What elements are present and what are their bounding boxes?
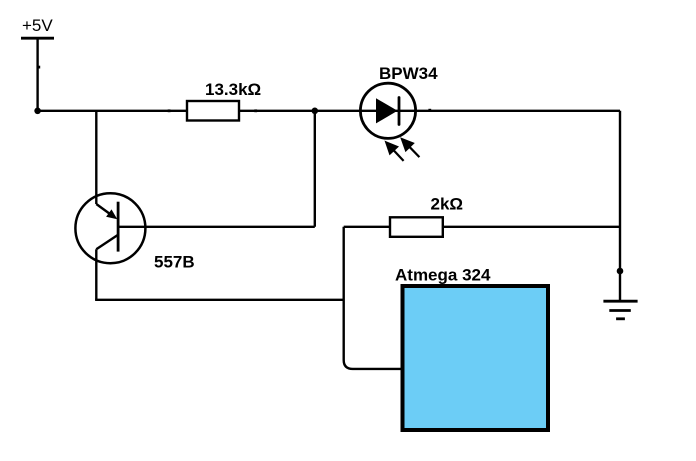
svg-text:+5V: +5V [22, 16, 53, 35]
svg-text:557B: 557B [154, 253, 195, 272]
svg-text:2kΩ: 2kΩ [431, 195, 464, 214]
svg-text:13.3kΩ: 13.3kΩ [205, 80, 261, 99]
svg-text:Atmega 324: Atmega 324 [395, 266, 491, 285]
svg-text:BPW34: BPW34 [379, 64, 438, 83]
